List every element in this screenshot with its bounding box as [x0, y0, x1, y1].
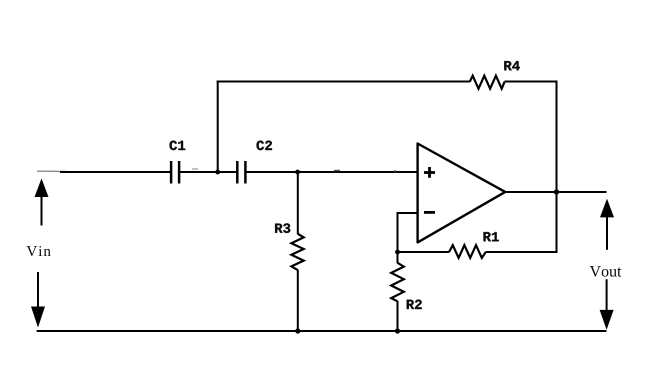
wire op-amp inverting input [398, 212, 418, 214]
wire vertical node A up to feedback [217, 81, 219, 173]
wire vertical output node down to R1 [556, 192, 558, 252]
stray mark 3 [394, 170, 396, 172]
wire input lead (gray) [37, 170, 66, 172]
resistor R2 [391, 252, 422, 331]
wire vertical inverting input down [397, 212, 399, 252]
Vout down arrow [600, 279, 614, 330]
op-amp U1 [418, 144, 506, 243]
wire vertical feedback down to output node [556, 82, 558, 193]
Vin up arrow [35, 179, 49, 226]
capacitor C1 [170, 141, 186, 184]
wire op-amp output [506, 191, 607, 193]
node B junction feedback [395, 250, 400, 255]
resistor R3 [275, 172, 304, 331]
Vin down arrow [31, 272, 45, 328]
stray mark 1 [192, 168, 198, 170]
node F junction R3-ground [295, 328, 300, 333]
Vout label [590, 266, 622, 277]
stray mark 2 [334, 170, 340, 172]
Vout up arrow [600, 199, 614, 250]
node A junction C1-C2 [215, 170, 220, 175]
capacitor C2 [237, 141, 272, 184]
wire node B to R1 [398, 251, 450, 253]
wire C2 to op-amp + input [246, 171, 418, 173]
node E junction C2-R3 [295, 170, 300, 175]
wire top feedback left segment [217, 81, 470, 83]
wire input to C1 [60, 171, 170, 173]
wire R1 to output corner [486, 251, 558, 253]
node D junction R2-ground [395, 328, 400, 333]
node C output junction [554, 189, 559, 194]
resistor R4 [470, 61, 520, 89]
wire C1 to C2 [180, 171, 236, 173]
resistor R1 [449, 232, 499, 258]
Vin label [27, 246, 51, 256]
wire ground rail [37, 330, 607, 332]
wire top feedback right segment [505, 81, 558, 83]
